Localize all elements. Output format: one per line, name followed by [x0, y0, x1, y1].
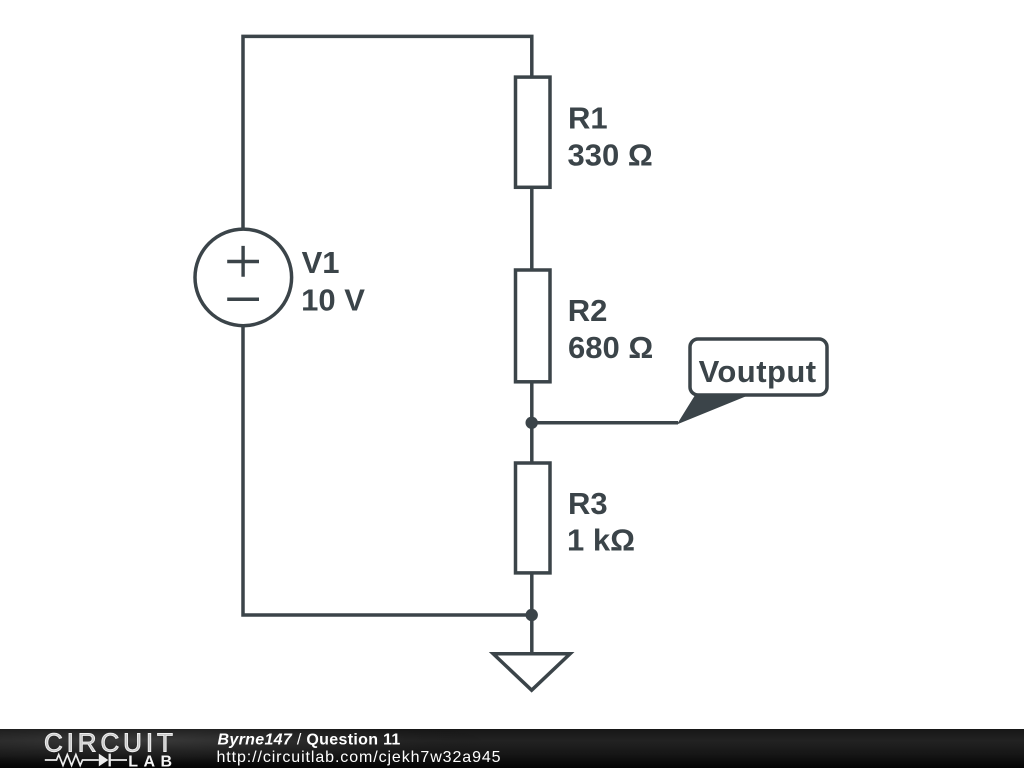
- voltage source V1: [195, 229, 292, 326]
- wire V1 positive terminal to R1 top: [243, 36, 532, 229]
- svg-text:R1: R1: [568, 101, 608, 136]
- svg-text:1 kΩ: 1 kΩ: [567, 522, 635, 557]
- junction dot node Voutput: [526, 417, 538, 429]
- svg-text:Voutput: Voutput: [699, 354, 817, 389]
- svg-text:R3: R3: [568, 486, 608, 521]
- svg-text:680 Ω: 680 Ω: [568, 330, 653, 365]
- svg-text:V1: V1: [302, 245, 340, 280]
- wire node Voutput to flag: [532, 421, 678, 425]
- wire V1 negative terminal to ground node: [243, 325, 532, 615]
- resistor R2: [516, 270, 551, 382]
- wire ground node to ground symbol: [530, 615, 534, 653]
- svg-text:10 V: 10 V: [301, 282, 365, 317]
- wire R2 bottom to R3 top: [530, 382, 534, 464]
- svg-text:http://circuitlab.com/cjekh7w3: http://circuitlab.com/cjekh7w32a945: [217, 749, 502, 766]
- resistor R3: [516, 463, 551, 573]
- footer bar: [0, 729, 1024, 768]
- junction dot ground node: [526, 609, 538, 621]
- net flag box Voutput: [690, 339, 827, 395]
- svg-text:LAB: LAB: [128, 753, 177, 768]
- net flag pointer Voutput: [678, 395, 749, 424]
- svg-text:330 Ω: 330 Ω: [568, 137, 653, 172]
- wire R1 bottom to R2 top: [530, 188, 534, 271]
- svg-text:Byrne147 / Question 11: Byrne147 / Question 11: [218, 732, 401, 749]
- CircuitLab logo resistor zigzag and diode: [45, 754, 127, 767]
- resistor R1: [516, 77, 551, 187]
- ground symbol: [493, 654, 570, 690]
- wire R3 bottom to ground node: [530, 573, 534, 615]
- svg-text:R2: R2: [568, 293, 608, 328]
